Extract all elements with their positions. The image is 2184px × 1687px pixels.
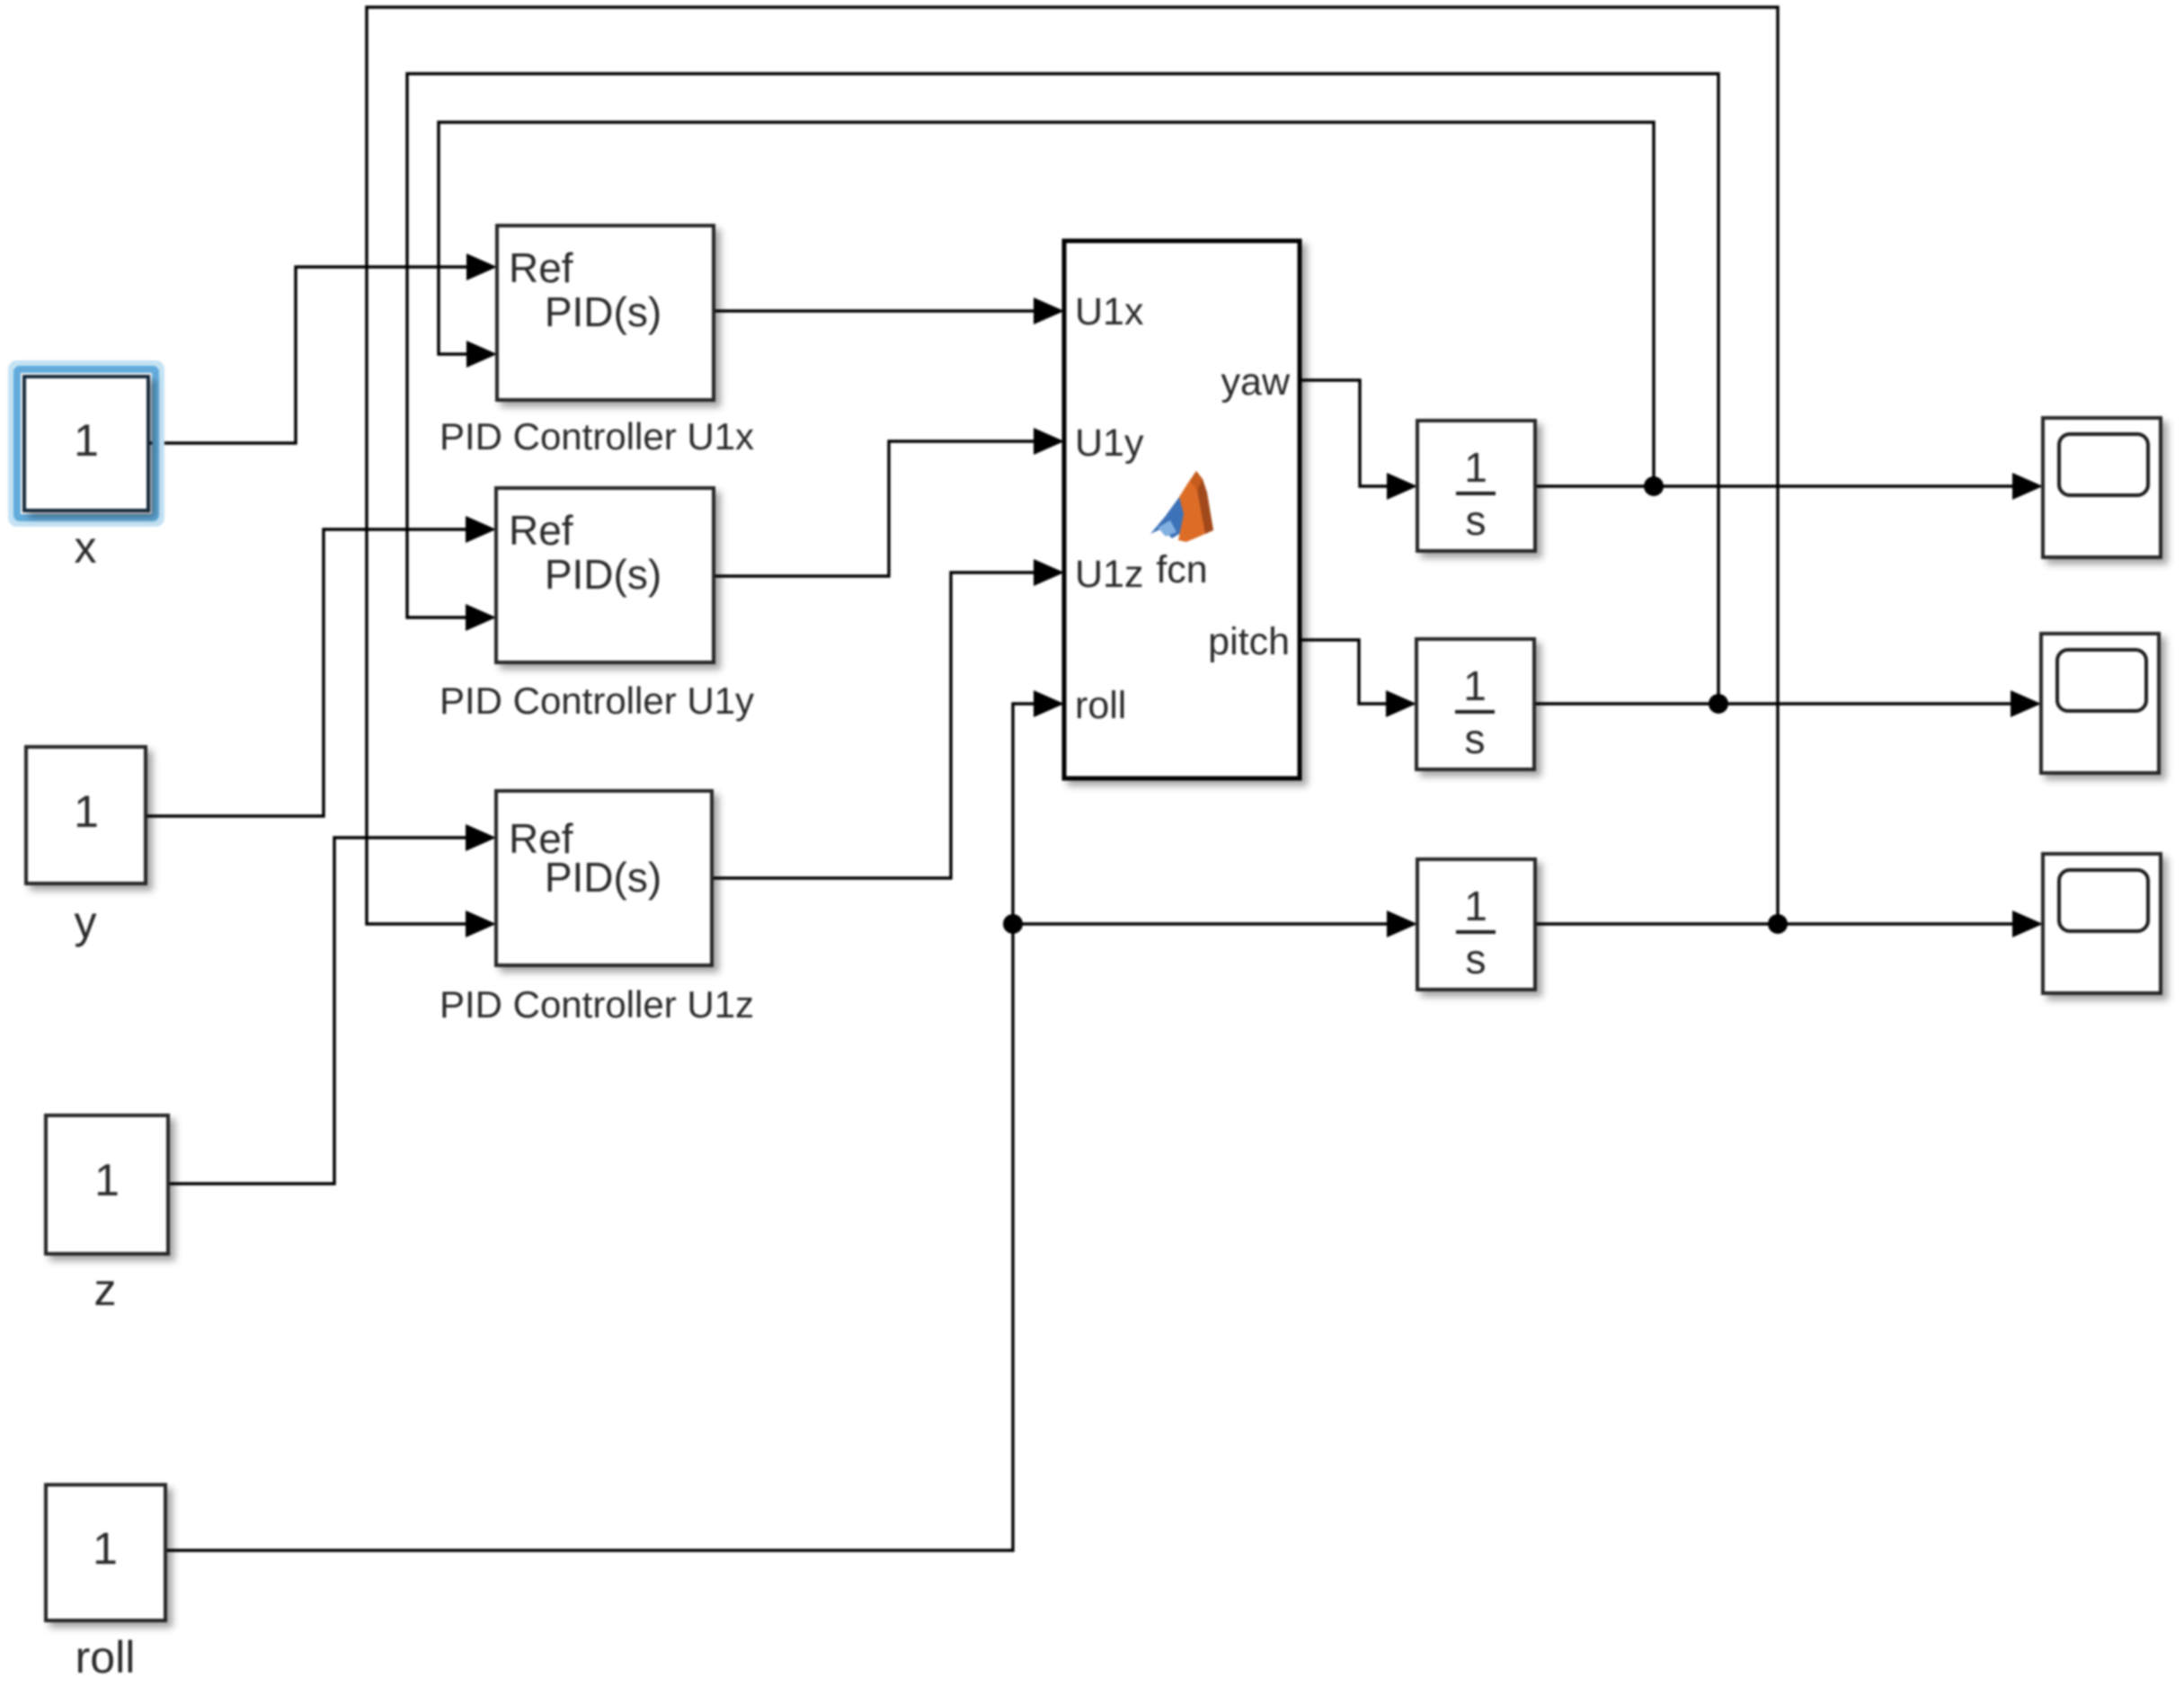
junction dot on Integrator3 output wire <box>1768 914 1788 934</box>
Scope1 block <box>2043 418 2161 557</box>
svg-text:1: 1 <box>1464 444 1487 491</box>
arrowhead into PID U1y Ref <box>466 516 496 543</box>
arrowhead into Scope1 <box>2012 473 2043 500</box>
arrowhead into fcn U1x input <box>1034 297 1064 324</box>
constant block z <box>46 1115 168 1254</box>
wire: fcn yaw output to Integrator1 <box>1300 380 1389 486</box>
Integrator2 block <box>1416 639 1534 769</box>
svg-text:PID Controller U1y: PID Controller U1y <box>439 679 754 722</box>
wire: Integrator3 to Scope3 <box>1535 922 2014 925</box>
constant block x <box>24 377 148 511</box>
svg-text:1: 1 <box>1464 883 1487 929</box>
MATLAB Function block fcn <box>1064 241 1300 778</box>
svg-text:PID(s): PID(s) <box>545 854 661 901</box>
svg-text:U1x: U1x <box>1075 290 1144 333</box>
svg-text:Ref: Ref <box>509 507 573 554</box>
svg-text:pitch: pitch <box>1208 620 1290 663</box>
wire: Integrator1 to Scope1 <box>1535 484 2014 487</box>
junction dot on pitch output wire <box>1709 694 1728 714</box>
PID Controller U1y block <box>496 488 714 662</box>
wire: constant x to PID U1x Ref <box>148 267 468 443</box>
svg-text:y: y <box>75 897 97 947</box>
PID Controller U1z block <box>496 791 712 965</box>
wire: constant roll to fcn roll input <box>165 704 1035 1550</box>
arrowhead into Integrator2 <box>1386 690 1416 717</box>
arrowhead into PID U1x Ref <box>466 253 497 280</box>
Scope3 block <box>2043 854 2161 993</box>
svg-text:1: 1 <box>1463 662 1487 709</box>
feedback wire: Integrator3 junction to PID U1z second input <box>367 7 1778 924</box>
svg-text:U1z: U1z <box>1075 553 1143 596</box>
constant block y <box>26 747 146 883</box>
Integrator1 block <box>1417 421 1535 551</box>
svg-text:1: 1 <box>74 786 99 837</box>
svg-text:PID(s): PID(s) <box>545 289 661 335</box>
svg-text:U1y: U1y <box>1075 422 1144 465</box>
svg-text:1: 1 <box>74 415 99 466</box>
svg-text:PID Controller U1z: PID Controller U1z <box>439 983 754 1026</box>
svg-text:Ref: Ref <box>509 244 573 291</box>
wire: PID U1y output to fcn U1y input <box>714 441 1035 576</box>
svg-text:1: 1 <box>94 1155 120 1205</box>
wire: constant z to PID U1z Ref <box>168 838 467 1184</box>
arrowhead into fcn roll input <box>1034 690 1064 717</box>
svg-text:fcn: fcn <box>1156 548 1207 591</box>
Scope2 block <box>2041 634 2159 773</box>
selection highlight around constant x <box>12 364 161 523</box>
arrowhead into Scope2 <box>2011 690 2041 717</box>
arrowhead into fcn U1z input <box>1034 559 1064 586</box>
svg-text:yaw: yaw <box>1221 360 1291 404</box>
svg-text:PID(s): PID(s) <box>545 551 661 598</box>
arrowhead into Integrator1 <box>1387 473 1417 500</box>
feedback wire: pitch junction to PID U1y second input <box>407 74 1718 704</box>
Scope3 screen <box>2059 870 2148 931</box>
svg-text:roll: roll <box>75 1632 136 1683</box>
arrowhead into PID U1y second input <box>466 604 496 631</box>
wire: Integrator2 to Scope2 <box>1534 702 2012 705</box>
wire: PID U1x output to fcn U1x input <box>714 309 1035 312</box>
wire: PID U1z output to fcn U1z input <box>712 573 1035 878</box>
svg-text:s: s <box>1466 497 1487 544</box>
wire: roll junction to Integrator3 <box>1013 922 1389 925</box>
svg-text:z: z <box>94 1265 117 1315</box>
Integrator3 block <box>1417 859 1535 990</box>
svg-text:s: s <box>1466 936 1487 982</box>
svg-text:x: x <box>75 522 97 573</box>
constant block roll <box>46 1485 165 1620</box>
arrowhead into PID U1z second input <box>466 910 496 937</box>
Scope2 screen <box>2057 650 2146 711</box>
arrowhead into Scope3 <box>2012 910 2043 937</box>
Scope1 screen <box>2059 434 2148 495</box>
PID Controller U1x block <box>497 226 714 400</box>
junction dot on roll wire <box>1003 914 1023 934</box>
arrowhead into PID U1z Ref <box>466 824 496 851</box>
arrowhead into Integrator3 <box>1387 910 1417 937</box>
svg-text:PID Controller U1x: PID Controller U1x <box>439 415 754 457</box>
MATLAB logo <box>1150 471 1213 542</box>
arrowhead into PID U1x second input <box>466 341 497 368</box>
svg-text:s: s <box>1465 715 1486 762</box>
svg-text:1: 1 <box>93 1523 118 1574</box>
arrowhead into fcn U1y input <box>1034 428 1064 455</box>
feedback wire: yaw junction to PID U1x second input <box>439 122 1654 486</box>
junction dot on yaw output wire <box>1644 476 1664 496</box>
wire: constant y to PID U1y Ref <box>146 529 467 816</box>
wire: fcn pitch output to Integrator2 <box>1300 640 1388 704</box>
svg-text:roll: roll <box>1075 684 1126 727</box>
